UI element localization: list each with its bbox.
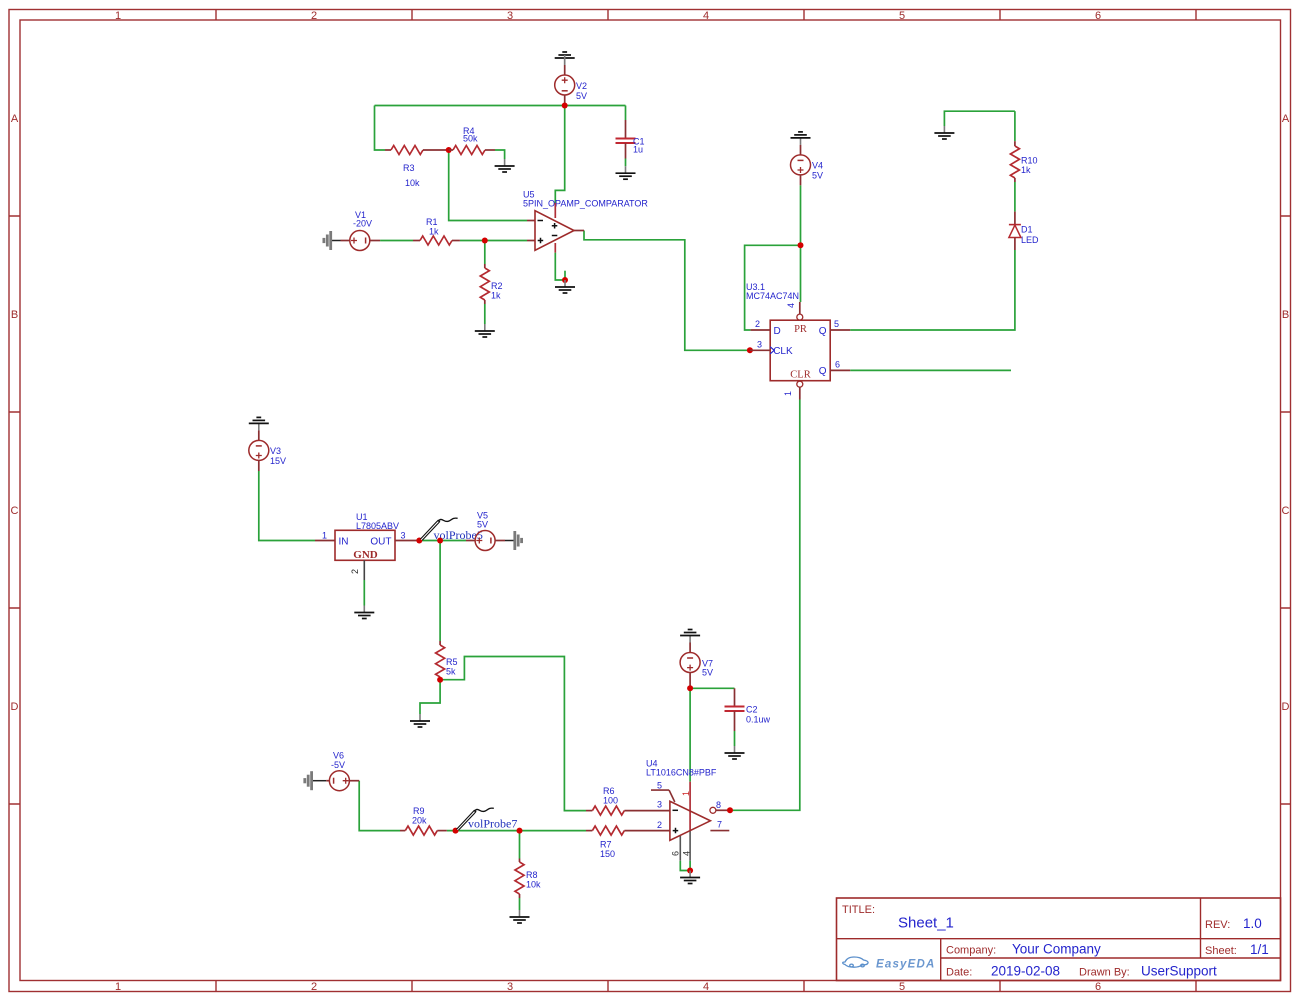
svg-text:Drawn By:: Drawn By: bbox=[1079, 967, 1130, 979]
wire C1 bottom lead bbox=[625, 159, 627, 167]
svg-text:5: 5 bbox=[899, 981, 905, 993]
svg-text:EasyEDA: EasyEDA bbox=[876, 959, 936, 971]
svg-text:Sheet:: Sheet: bbox=[1205, 945, 1237, 957]
svg-text:1/1: 1/1 bbox=[1250, 942, 1269, 957]
svg-text:3: 3 bbox=[401, 531, 406, 541]
wire R8 bottom to ground bbox=[519, 898, 521, 910]
wire Q pin5 to LED branch bbox=[850, 250, 1015, 330]
voltage probe volProbe5 bbox=[420, 518, 483, 542]
svg-text:0.1uw: 0.1uw bbox=[746, 715, 771, 725]
column labels bottom bbox=[115, 981, 1101, 993]
node junction R5 bottom bbox=[437, 677, 443, 683]
resistor R9 bbox=[400, 806, 447, 835]
wire top rail V2 node bbox=[375, 105, 626, 107]
svg-text:6: 6 bbox=[671, 851, 681, 856]
svg-text:V6: V6 bbox=[333, 751, 344, 761]
wire R3-R4 junction down to U5 minus input bbox=[449, 150, 527, 221]
resistor R4 bbox=[449, 126, 495, 155]
svg-text:1: 1 bbox=[681, 791, 691, 796]
voltage probe volProbe7 bbox=[457, 808, 518, 830]
wire V4 down to node bbox=[800, 185, 802, 245]
svg-text:MC74AC74N: MC74AC74N bbox=[746, 291, 799, 301]
svg-text:V4: V4 bbox=[812, 161, 823, 171]
svg-text:1k: 1k bbox=[429, 227, 439, 237]
wire top-right ground rail bbox=[944, 111, 1015, 126]
voltage source V7 bbox=[680, 643, 713, 689]
svg-text:D1: D1 bbox=[1021, 225, 1033, 235]
svg-text:1: 1 bbox=[783, 391, 793, 396]
svg-text:-5V: -5V bbox=[331, 760, 345, 770]
svg-text:Q: Q bbox=[819, 366, 827, 377]
svg-text:2: 2 bbox=[350, 569, 360, 574]
svg-text:5V: 5V bbox=[812, 171, 823, 181]
svg-text:5V: 5V bbox=[477, 520, 488, 530]
svg-text:5V: 5V bbox=[576, 91, 587, 101]
row labels right bbox=[1282, 113, 1290, 713]
svg-text:D: D bbox=[11, 701, 19, 713]
svg-text:volProbe7: volProbe7 bbox=[468, 817, 517, 831]
svg-text:REV:: REV: bbox=[1205, 919, 1230, 931]
ground above V2 bbox=[555, 52, 575, 65]
svg-text:D: D bbox=[774, 326, 781, 337]
resistor R6 bbox=[586, 786, 670, 815]
resistor R1 bbox=[413, 217, 460, 245]
svg-text:R7: R7 bbox=[600, 840, 612, 850]
row ticks left bbox=[9, 216, 20, 804]
row ticks right bbox=[1281, 216, 1291, 804]
column labels top bbox=[115, 10, 1101, 22]
ground below R8 bbox=[510, 910, 530, 923]
wire R1 to junction to U5 plus input bbox=[460, 240, 527, 242]
svg-text:PR: PR bbox=[794, 324, 807, 335]
node junction U4 ground bbox=[687, 868, 693, 874]
svg-text:CLR: CLR bbox=[790, 370, 810, 381]
flip-flop U3.1 MC74AC74N bbox=[746, 282, 850, 400]
wire U1 OUT node bbox=[419, 540, 466, 542]
svg-text:IN: IN bbox=[339, 537, 349, 548]
ground near R10 bbox=[934, 126, 954, 139]
svg-text:8: 8 bbox=[716, 800, 721, 810]
svg-text:C2: C2 bbox=[746, 705, 758, 715]
wire junction down to R2 bbox=[484, 241, 486, 265]
svg-text:50k: 50k bbox=[463, 134, 478, 144]
svg-text:10k: 10k bbox=[526, 880, 541, 890]
svg-text:Your Company: Your Company bbox=[1012, 942, 1101, 957]
svg-text:GND: GND bbox=[353, 549, 378, 561]
node junction U4 output bbox=[727, 807, 733, 813]
svg-text:1u: 1u bbox=[633, 145, 643, 155]
wire C1 top lead bbox=[625, 106, 627, 121]
svg-text:2: 2 bbox=[657, 820, 662, 830]
svg-text:1k: 1k bbox=[491, 291, 501, 301]
ground above V3 bbox=[249, 417, 269, 430]
svg-text:-20V: -20V bbox=[353, 219, 372, 229]
voltage source V3 bbox=[249, 430, 286, 471]
svg-text:C: C bbox=[11, 505, 19, 517]
title block title row divider bbox=[837, 938, 1281, 940]
capacitor C2 bbox=[725, 688, 771, 731]
svg-text:1k: 1k bbox=[1021, 165, 1031, 175]
svg-text:D: D bbox=[1282, 701, 1290, 713]
wire Q-bar pin6 stub bbox=[850, 369, 1011, 371]
voltage source V6 bbox=[326, 751, 359, 791]
wire R9 to probe node bbox=[447, 830, 520, 832]
capacitor C1 bbox=[616, 120, 645, 159]
wire R5 bottom junction to R6 bbox=[440, 657, 586, 811]
wire node down to R5 bbox=[439, 541, 441, 642]
ground below U1 bbox=[354, 606, 374, 619]
svg-text:20k: 20k bbox=[412, 816, 427, 826]
title block company/date divider bbox=[941, 957, 1281, 959]
node junction probe7 bbox=[453, 828, 459, 834]
EasyEDA logo bbox=[843, 957, 868, 967]
svg-text:2019-02-08: 2019-02-08 bbox=[991, 964, 1060, 979]
ground above V4 bbox=[791, 132, 811, 145]
svg-text:100: 100 bbox=[603, 796, 618, 806]
ground right of V5 bbox=[505, 531, 522, 550]
svg-text:Company:: Company: bbox=[946, 945, 996, 957]
node junction V2 rail bbox=[562, 103, 568, 109]
ground left of V1 bbox=[324, 231, 341, 250]
wire V7 node down to U4 vplus bbox=[689, 688, 691, 781]
svg-text:V2: V2 bbox=[576, 81, 587, 91]
voltage source V5 bbox=[466, 511, 505, 551]
wire U1 GND pin to ground bbox=[363, 580, 365, 606]
svg-text:1.0: 1.0 bbox=[1243, 916, 1262, 931]
svg-text:5PIN_OPAMP_COMPARATOR: 5PIN_OPAMP_COMPARATOR bbox=[523, 199, 648, 209]
wire U4 pin6 to ground node bbox=[680, 861, 690, 871]
svg-text:15V: 15V bbox=[270, 456, 286, 466]
wire U5 vminus to ground bbox=[555, 253, 565, 280]
LED D1 bbox=[1009, 212, 1039, 250]
svg-text:150: 150 bbox=[600, 849, 615, 859]
wire R5 junction to ground bbox=[420, 680, 440, 714]
wire R10 top bbox=[1014, 111, 1016, 141]
svg-text:A: A bbox=[1282, 113, 1290, 125]
ground left of V6 bbox=[305, 771, 327, 790]
wire V4 node to D pin bbox=[745, 245, 801, 330]
row labels left bbox=[11, 113, 19, 713]
svg-text:TITLE:: TITLE: bbox=[842, 904, 875, 916]
ground below R2 bbox=[475, 324, 495, 337]
svg-text:OUT: OUT bbox=[370, 537, 391, 548]
svg-text:5: 5 bbox=[834, 319, 839, 329]
svg-text:3: 3 bbox=[507, 981, 513, 993]
wire U4 output to CLR bbox=[730, 400, 800, 811]
ground below U5 bbox=[555, 280, 575, 293]
wire V7 node to C2 bbox=[690, 687, 734, 689]
svg-text:7: 7 bbox=[717, 820, 722, 830]
svg-text:3: 3 bbox=[757, 340, 762, 350]
svg-text:C: C bbox=[1282, 505, 1290, 517]
wire left drop to R3 bbox=[375, 106, 386, 151]
wire V3 down to U1 IN bbox=[259, 471, 315, 541]
column ticks top bbox=[216, 10, 1196, 21]
svg-text:5k: 5k bbox=[446, 667, 456, 677]
wire node down to PR pin bbox=[800, 245, 802, 302]
resistor R8 bbox=[515, 859, 541, 899]
ground above V7 bbox=[680, 630, 700, 643]
title block logo cell divider bbox=[940, 939, 942, 981]
svg-text:CLK: CLK bbox=[773, 346, 793, 357]
svg-text:Date:: Date: bbox=[946, 967, 972, 979]
wire U5 output to CLK bbox=[584, 231, 747, 351]
wire V2 down to U5 vplus pin bbox=[555, 106, 564, 204]
ground below R5 bbox=[410, 714, 430, 727]
node junction R5 top bbox=[437, 538, 443, 544]
svg-text:R5: R5 bbox=[446, 657, 458, 667]
svg-text:1: 1 bbox=[115, 981, 121, 993]
svg-text:V3: V3 bbox=[270, 446, 281, 456]
resistor R7 bbox=[586, 826, 670, 859]
svg-text:5V: 5V bbox=[702, 668, 713, 678]
node junction V7 bbox=[687, 685, 693, 691]
wire stub above U5 ground dot bbox=[564, 271, 566, 280]
svg-text:R1: R1 bbox=[426, 217, 438, 227]
wire V1 to R1 bbox=[380, 240, 413, 242]
svg-text:R2: R2 bbox=[491, 281, 503, 291]
wire R2 bottom to ground bbox=[484, 304, 486, 324]
svg-text:1: 1 bbox=[322, 531, 327, 541]
resistor R5 bbox=[436, 641, 458, 680]
svg-text:1: 1 bbox=[115, 10, 121, 22]
svg-text:5: 5 bbox=[899, 10, 905, 22]
svg-text:4: 4 bbox=[703, 981, 709, 993]
wire probe node to R7 bbox=[520, 830, 587, 832]
svg-text:5: 5 bbox=[657, 780, 662, 790]
svg-text:3: 3 bbox=[507, 10, 513, 22]
svg-text:B: B bbox=[1282, 309, 1289, 321]
svg-text:Q: Q bbox=[819, 326, 827, 337]
svg-text:R10: R10 bbox=[1021, 156, 1038, 166]
op-amp U5 bbox=[523, 190, 648, 253]
ground below U4 bbox=[680, 871, 700, 884]
title block rev cell divider bbox=[1200, 898, 1202, 958]
node junction CLK bbox=[747, 347, 753, 353]
ground below C1 bbox=[616, 166, 636, 179]
svg-text:B: B bbox=[11, 309, 18, 321]
svg-text:4: 4 bbox=[786, 303, 796, 308]
node junction U5 ground bbox=[562, 277, 568, 283]
wire C2 bottom to ground bbox=[734, 731, 736, 746]
title block outline bbox=[837, 898, 1281, 981]
svg-text:A: A bbox=[11, 113, 19, 125]
resistor R10 bbox=[1010, 141, 1037, 182]
svg-text:4: 4 bbox=[703, 10, 709, 22]
svg-text:R6: R6 bbox=[603, 786, 615, 796]
svg-text:10k: 10k bbox=[405, 178, 420, 188]
wire R4 right to ground bbox=[495, 150, 505, 159]
node junction R3-R4 bbox=[446, 147, 452, 153]
svg-text:6: 6 bbox=[1095, 10, 1101, 22]
node junction U1 OUT bbox=[416, 538, 422, 544]
voltage source V1 bbox=[341, 210, 381, 251]
svg-text:2: 2 bbox=[755, 319, 760, 329]
node junction R8 top bbox=[517, 828, 523, 834]
svg-text:LT1016CN8#PBF: LT1016CN8#PBF bbox=[646, 768, 717, 778]
svg-text:R8: R8 bbox=[526, 870, 538, 880]
column ticks bottom bbox=[216, 981, 1196, 992]
svg-text:2: 2 bbox=[311, 10, 317, 22]
wire R10 bottom to D1 bbox=[1014, 182, 1016, 212]
voltage source V2 bbox=[555, 55, 587, 106]
svg-text:2: 2 bbox=[311, 981, 317, 993]
regulator U1 L7805ABV bbox=[315, 512, 419, 580]
comparator U4 LT1016CN8#PBF bbox=[646, 759, 730, 861]
svg-text:6: 6 bbox=[835, 360, 840, 370]
wire V6 down to R9 bbox=[359, 781, 400, 831]
wire U4 pin4 to ground node bbox=[689, 861, 691, 871]
svg-text:R9: R9 bbox=[413, 806, 425, 816]
wire node down to R8 bbox=[519, 831, 521, 859]
svg-text:4: 4 bbox=[682, 851, 692, 856]
svg-text:6: 6 bbox=[1095, 981, 1101, 993]
svg-text:LED: LED bbox=[1021, 235, 1039, 245]
voltage source V4 bbox=[791, 145, 824, 185]
node junction R1-R2 bbox=[482, 238, 488, 244]
node junction V4-D-PR bbox=[798, 242, 804, 248]
resistor R3 bbox=[385, 146, 449, 189]
svg-text:UserSupport: UserSupport bbox=[1141, 964, 1217, 979]
svg-text:R3: R3 bbox=[403, 163, 415, 173]
ground below R4 bbox=[495, 159, 515, 172]
svg-text:3: 3 bbox=[657, 800, 662, 810]
ground below C2 bbox=[725, 746, 745, 759]
svg-text:Sheet_1: Sheet_1 bbox=[898, 915, 954, 932]
resistor R2 bbox=[480, 264, 502, 304]
